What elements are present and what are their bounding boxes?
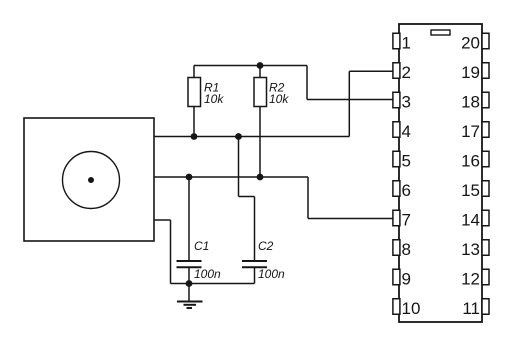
wire: C2 top lead [254,197,256,262]
wire: line 2 drop to pin 7 level [307,177,309,219]
pin 12 box [482,269,489,285]
svg-text:15: 15 [461,181,480,200]
wire: C2 branch jog [239,196,255,198]
pin 16 box [482,151,489,167]
svg-text:C2: C2 [258,239,274,253]
svg-text:17: 17 [461,122,480,141]
svg-text:100n: 100n [258,267,285,281]
svg-text:100n: 100n [194,267,221,281]
pin 1 box [393,33,400,49]
wire: R1 top lead [193,66,195,78]
pin 20 box [482,33,489,49]
svg-text:6: 6 [402,181,411,200]
junction R2 bottom on line 2 [257,174,264,181]
wire: R2 top lead [259,66,261,78]
svg-text:7: 7 [402,210,411,229]
pin 2 box [393,63,400,79]
svg-text:3: 3 [402,92,411,111]
wire: top bus R1 to corner [194,65,307,67]
pin 19 box [482,63,489,79]
wire: R1 bottom lead [193,107,195,137]
svg-text:14: 14 [461,210,480,229]
wire: bus line 1 (device box to pin 2 drop) [154,136,349,138]
resistor R1 [188,78,201,107]
pin 10 box [393,299,400,315]
junction R1 bottom on line 1 [191,133,198,140]
wire: C2 branch vertical [238,137,240,197]
capacitor C2 [242,260,267,262]
pin 13 box [482,240,489,256]
pin 11 box [482,299,489,315]
svg-text:9: 9 [402,269,411,288]
svg-text:19: 19 [461,63,480,82]
device box X1 (sensor/encoder module) [24,118,154,241]
svg-text:8: 8 [402,240,411,259]
wire: to IC pin 3 [307,99,393,101]
svg-text:16: 16 [461,151,480,170]
svg-text:10: 10 [402,299,421,318]
svg-text:10k: 10k [204,92,224,106]
wire: C1 bottom lead [188,267,190,283]
wire: device box lower stub [154,219,171,221]
svg-text:2: 2 [402,63,411,82]
capacitor C1 [177,260,202,262]
svg-text:10k: 10k [269,92,289,106]
junction C1 top on line 2 [186,174,193,181]
pin 18 box [482,92,489,108]
pin 14 box [482,210,489,226]
wire: top bus drop [306,66,308,100]
svg-text:12: 12 [461,269,480,288]
wire: bus line 2 (device box to corner) [154,176,308,178]
pin 15 box [482,181,489,197]
op IC U1 body (20-pin) [399,24,482,322]
svg-text:20: 20 [461,33,480,52]
pin 8 box [393,240,400,256]
svg-text:11: 11 [462,299,480,318]
pin 9 box [393,269,400,285]
pin 4 box [393,122,400,138]
pin 7 box [393,210,400,226]
pin 5 box [393,151,400,167]
svg-text:4: 4 [402,122,411,141]
center dot of device circle [88,177,94,183]
junction at ground tap [186,280,193,287]
svg-text:18: 18 [461,92,480,111]
wire: to IC pin 7 [308,218,393,220]
svg-text:5: 5 [402,151,411,170]
junction C2 branch on line 1 [235,133,242,140]
ground [177,284,203,309]
wire: pin 2 drop to bus line 1 [348,71,350,136]
pin 17 box [482,122,489,138]
pin 6 box [393,181,400,197]
pin 3 box [393,92,400,108]
wire: C1 top lead [188,177,190,261]
wire: C2 bottom lead [254,267,256,283]
notch (pin 1 orientation mark) [431,30,450,35]
wire: from IC pin 2 [349,70,393,72]
svg-text:C1: C1 [194,239,209,253]
junction at R2 top on top bus [257,62,264,69]
resistor R2 [254,78,267,107]
wire: ground bus [171,283,255,285]
svg-text:13: 13 [461,240,480,259]
wire: device box drop to ground bus [170,220,172,284]
svg-text:1: 1 [402,33,411,52]
circle inside device box [63,152,120,209]
wire: R2 bottom lead (crosses line 1) [259,107,261,178]
